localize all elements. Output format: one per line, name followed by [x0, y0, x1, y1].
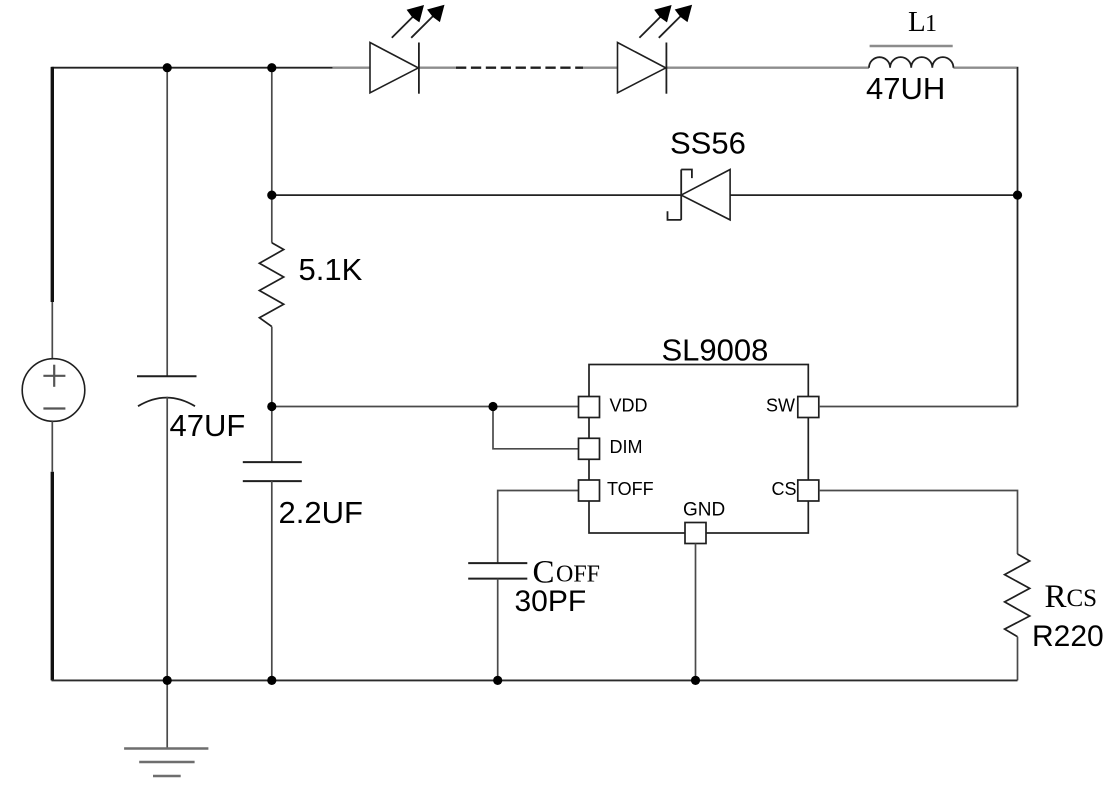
svg-text:1: 1 [925, 11, 937, 37]
op-amp U1 SL9008 body [589, 365, 808, 534]
svg-text:CS: CS [1067, 585, 1098, 612]
svg-text:30PF: 30PF [515, 585, 587, 618]
svg-text:L: L [908, 6, 926, 38]
capacitor C1 47UF polarized [137, 376, 197, 406]
pin label VDD [610, 395, 648, 415]
label COFF [533, 555, 601, 591]
pin label CS [772, 479, 797, 499]
wire 5.1K to 2.2UF cap [271, 327, 273, 463]
wire left rail lower thick segment [51, 472, 54, 681]
wire right rail down to SW level [1017, 67, 1019, 407]
svg-text:CS: CS [772, 479, 797, 499]
pin DIM [579, 438, 600, 459]
wire ground stem [166, 680, 168, 748]
node bottom rail / GND junction [691, 676, 700, 685]
wire 2.2UF to bottom rail [271, 481, 273, 680]
wire DIM tap [493, 407, 579, 449]
node top rail / 5.1K junction [267, 63, 276, 72]
svg-text:47UF: 47UF [170, 408, 246, 443]
wire LED1 cathode to dash start [419, 66, 456, 68]
pin label SW [766, 395, 795, 415]
svg-text:SS56: SS56 [670, 126, 746, 161]
pin VDD [579, 397, 600, 418]
LED D1 light arrows [392, 5, 445, 38]
wire L1 to top-right corner and down right rail to SW level [953, 66, 1016, 68]
schottky diode SS56 [668, 170, 731, 220]
pin label GND [683, 500, 725, 521]
pin SW [798, 397, 819, 418]
wire SW net [819, 406, 1018, 408]
wire 47UF branch upper [166, 68, 168, 377]
voltage source V1 [22, 359, 85, 422]
pin TOFF [579, 480, 600, 501]
wire TOFF net [498, 491, 579, 564]
label SL9008 [662, 333, 769, 368]
value 2.2UF [279, 495, 363, 530]
wire top rail from source to LED1 anode [52, 67, 333, 69]
label RCS [1045, 579, 1098, 615]
wire left rail upper thick segment [51, 67, 54, 302]
label SS56 [670, 126, 746, 161]
wire gray segment to LED1 anode [333, 66, 370, 68]
LED D2 [618, 43, 667, 94]
node VDD net left junction [267, 402, 276, 411]
capacitor COFF [468, 563, 527, 579]
value R220 [1032, 620, 1104, 653]
wire SS56 row right [730, 194, 1017, 196]
resistor R1 5.1K [259, 243, 283, 327]
pin CS [798, 480, 819, 501]
value 47UH [866, 71, 945, 106]
value 30PF [515, 585, 587, 618]
wire COFF to bottom rail [497, 579, 499, 681]
svg-text:DIM: DIM [610, 437, 643, 457]
svg-text:GND: GND [683, 500, 725, 521]
svg-text:2.2UF: 2.2UF [279, 495, 363, 530]
svg-text:SL9008: SL9008 [662, 333, 769, 368]
node SS56 right junction [1013, 191, 1022, 200]
inductor L1 [869, 46, 953, 68]
wire dashed LED string continuation [456, 66, 583, 68]
pin GND [685, 523, 706, 544]
wire left rail thin below source [51, 421, 53, 471]
wire dash end to LED2 anode [583, 66, 618, 68]
ground [124, 749, 208, 777]
LED D1 [370, 43, 419, 94]
wire VDD net [272, 406, 579, 408]
svg-text:R220: R220 [1032, 620, 1104, 653]
resistor RCS R220 [1005, 554, 1030, 637]
svg-text:47UH: 47UH [866, 71, 945, 106]
pin label TOFF [607, 479, 654, 499]
wire left rail thin above source [51, 302, 53, 359]
svg-text:TOFF: TOFF [607, 479, 654, 499]
wire 47UF branch lower [166, 397, 168, 681]
node SS56 left junction [267, 191, 276, 200]
svg-text:OFF: OFF [556, 562, 600, 588]
label L1 [908, 6, 937, 38]
wire bottom rail [52, 679, 1018, 681]
pin label DIM [610, 437, 643, 457]
value 47UF [170, 408, 246, 443]
node bottom rail / 47UF junction [163, 676, 172, 685]
node top rail / 47UF junction [163, 63, 172, 72]
wire GND pin to bottom rail [695, 544, 697, 681]
wire RCS to bottom rail [1017, 637, 1019, 681]
wire CS net to RCS [819, 491, 1018, 555]
value 5.1K [299, 252, 363, 287]
wire SS56 row left [272, 194, 681, 196]
svg-text:VDD: VDD [610, 395, 648, 415]
node VDD/DIM tap junction [488, 402, 497, 411]
wire LED2 cathode to L1 [666, 66, 869, 68]
svg-text:SW: SW [766, 395, 795, 415]
svg-text:5.1K: 5.1K [299, 252, 363, 287]
LED D2 light arrows [639, 5, 692, 38]
node bottom rail / 2.2UF junction [267, 676, 276, 685]
svg-text:R: R [1045, 579, 1067, 615]
node bottom rail / COFF junction [493, 676, 502, 685]
wire 5.1K branch from top rail [271, 68, 273, 243]
capacitor C2 2.2UF [243, 462, 302, 481]
